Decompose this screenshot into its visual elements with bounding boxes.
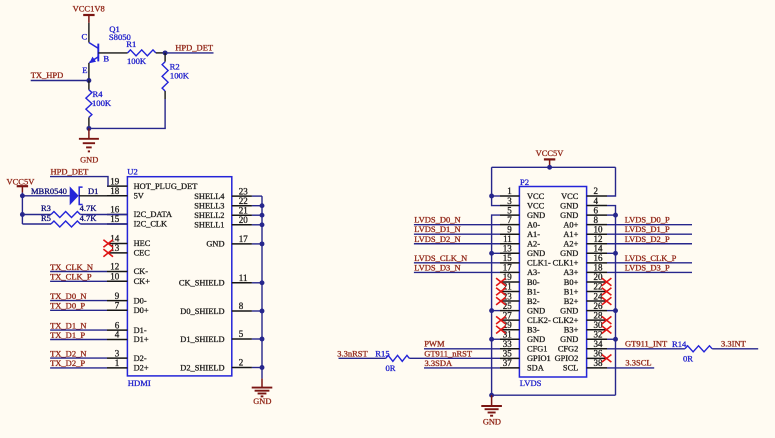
no-connect X pin 27 [496,316,506,324]
svg-text:20: 20 [594,272,604,282]
wire LVDS_CLK_N [414,262,500,264]
svg-text:U2: U2 [127,167,138,177]
no-connect X pin 19 [496,278,506,286]
svg-text:CK-: CK- [134,267,149,276]
svg-text:13: 13 [110,243,120,253]
svg-text:D1+: D1+ [134,335,149,344]
svg-text:11: 11 [503,234,512,244]
svg-text:23: 23 [239,186,249,196]
pin 5 GND [500,214,519,216]
svg-text:I2C_CLK: I2C_CLK [134,220,168,229]
wire LVDS_CLK_P [607,262,692,264]
svg-text:GND: GND [560,335,578,344]
no-connect X pin 30 [602,326,612,334]
svg-text:22: 22 [239,196,248,206]
pin 15 I2C_CLK [107,223,127,225]
svg-text:D1: D1 [88,186,98,196]
svg-text:29: 29 [503,320,513,330]
svg-text:A2-: A2- [527,240,540,249]
wire GT911_INT from pin 34 [607,348,685,350]
svg-text:8: 8 [239,301,244,311]
svg-text:D2_SHIELD: D2_SHIELD [180,363,224,372]
pin 2 VCC [587,195,607,197]
node shield bus pin 11 [260,280,265,285]
svg-text:36: 36 [594,349,604,359]
svg-text:5: 5 [239,329,244,339]
svg-text:15: 15 [503,253,513,263]
svg-text:D1-: D1- [134,326,147,335]
pin 14 GND [587,252,607,254]
wire LVDS_D1_P [607,233,692,235]
pin 27 CLK2- [500,319,519,321]
node shield bus pin 21 [260,213,265,218]
wire shield bus vertical [261,196,263,379]
svg-text:9: 9 [507,224,512,234]
wire LVDS_D0_N [414,224,500,226]
pin 19 HOT_PLUG_DET [107,185,127,187]
wire bottom GND rail [492,394,616,396]
no-connect X pin 23 [496,297,506,305]
pin 20 B0+ [587,281,607,283]
ground GND [88,128,90,138]
svg-text:3.3SCL: 3.3SCL [625,358,651,368]
no-connect X pin 29 [496,326,506,334]
resistor R2 100K [164,53,166,62]
wire TX_D2_N [50,357,107,359]
node ground junction [86,126,91,131]
svg-text:TX_D2_P: TX_D2_P [50,358,85,368]
svg-text:HOT_PLUG_DET: HOT_PLUG_DET [134,182,198,191]
pin 15 CLK1- [500,262,519,264]
svg-text:D1_SHIELD: D1_SHIELD [180,335,224,344]
svg-text:17: 17 [239,234,249,244]
node left GND bus pin 25 [492,310,500,312]
node HPD_DET junction [163,50,168,55]
pin 22 B1+ [587,291,607,293]
svg-text:16: 16 [594,253,604,263]
wire LVDS_D3_P [607,271,692,273]
pin 8 A0+ [587,224,607,226]
svg-text:33: 33 [503,339,513,349]
pin 23 B2- [500,300,519,302]
pin 4 GND [587,205,607,207]
node emitter junction [86,78,91,83]
svg-text:12: 12 [594,234,603,244]
pin 13 GND [500,252,519,254]
svg-text:SCL: SCL [563,364,578,373]
svg-text:CEC: CEC [134,249,151,258]
svg-text:100K: 100K [170,71,190,81]
svg-text:28: 28 [594,310,604,320]
svg-text:20: 20 [239,215,249,225]
svg-text:B3+: B3+ [564,326,579,335]
svg-text:CFG1: CFG1 [527,345,547,354]
node shield bus pin 2 [260,365,265,370]
svg-text:14: 14 [594,244,604,254]
svg-text:7: 7 [115,301,120,311]
svg-text:MBR0540: MBR0540 [31,186,67,196]
pin 18 5V [107,195,127,197]
svg-text:HDMI: HDMI [128,378,151,388]
svg-text:TX_CLK_N: TX_CLK_N [50,262,93,272]
svg-text:VCC1V8: VCC1V8 [73,4,105,14]
svg-text:LVDS_D3_P: LVDS_D3_P [625,262,670,272]
node VCC5V-diode junction [20,193,25,198]
svg-text:24: 24 [594,291,604,301]
wire shield stub pin 2 [252,367,262,369]
no-connect X pin 20 [602,278,612,286]
svg-text:C: C [82,31,88,41]
svg-text:LVDS_D2_N: LVDS_D2_N [414,234,460,244]
transistor Q1 S8050 [89,43,98,49]
svg-text:5: 5 [507,205,512,215]
pin 10 CK+ [107,280,127,282]
svg-text:32: 32 [594,329,603,339]
wire left GND bus [492,215,500,395]
wire R2 to ground rail [164,99,166,128]
svg-text:18: 18 [594,263,604,273]
svg-text:11: 11 [239,273,248,283]
svg-text:CLK1+: CLK1+ [553,259,579,268]
wire VCC top rail [492,166,616,168]
svg-text:CK+: CK+ [134,277,151,286]
svg-text:TX_D0_P: TX_D0_P [50,301,85,311]
pin 31 GND [500,338,519,340]
resistor R1 100K [128,50,156,56]
svg-text:GPIO1: GPIO1 [527,354,551,363]
svg-text:SHELL4: SHELL4 [194,192,225,201]
resistor R4 100K [88,81,90,90]
node shield bus pin 22 [260,203,265,208]
pin 34 CFG2 [587,348,607,350]
svg-text:LVDS_CLK_P: LVDS_CLK_P [625,253,677,263]
pin 17 GND [232,243,252,245]
pin 5 D1_SHIELD [232,338,252,340]
pin 16 CLK1+ [587,262,607,264]
svg-text:A1+: A1+ [563,230,578,239]
svg-text:A0+: A0+ [563,220,578,229]
node right GND bus pin 32 [607,338,616,340]
pin 19 B0- [500,281,519,283]
svg-text:I2C_DATA: I2C_DATA [134,210,172,219]
svg-text:16: 16 [110,205,120,215]
component body U2 [127,177,231,376]
pin 38 SCL [587,367,607,369]
wire TX_CLK_N [50,271,107,273]
svg-text:10: 10 [110,272,120,282]
resistor R3 4.7K [22,214,51,216]
svg-text:4.7K: 4.7K [80,213,98,223]
pin 16 I2C_DATA [107,214,127,216]
svg-text:LVDS_CLK_N: LVDS_CLK_N [414,253,467,263]
svg-text:2: 2 [594,186,599,196]
svg-text:38: 38 [594,358,604,368]
svg-text:22: 22 [594,282,603,292]
resistor R5 4.7K [22,223,51,225]
svg-text:12: 12 [110,262,119,272]
svg-text:B: B [103,53,109,63]
svg-text:VCC: VCC [561,192,579,201]
wire TX_D1_N [50,329,107,331]
svg-text:0R: 0R [683,353,693,363]
svg-text:GND: GND [560,211,578,220]
svg-text:4: 4 [594,196,599,206]
ground GND (HDMI shield) [261,379,263,388]
node right GND bus pin 6 [607,214,616,216]
svg-text:R1: R1 [126,39,136,49]
svg-text:2: 2 [239,358,244,368]
svg-text:R14: R14 [672,339,687,349]
wire HPD_DET to pin 19 [50,177,108,187]
svg-text:GPIO2: GPIO2 [555,354,579,363]
pin 11 A2- [500,243,519,245]
svg-text:13: 13 [503,244,513,254]
svg-text:TX_D2_N: TX_D2_N [50,348,86,358]
svg-text:TX_D0_N: TX_D0_N [50,291,86,301]
pin 1 D2+ [107,367,127,369]
svg-text:HEC: HEC [134,239,151,248]
svg-text:23: 23 [503,291,513,301]
no-connect X pin 13 [103,249,113,257]
ground GND (LVDS) [491,395,493,406]
no-connect X pin 36 [602,355,612,363]
wire 3.3SCL from pin 38 [607,367,654,369]
pin 25 GND [500,310,519,312]
svg-text:3.3SDA: 3.3SDA [425,358,453,368]
svg-text:D0+: D0+ [134,306,149,315]
svg-text:5V: 5V [134,191,144,200]
svg-text:17: 17 [503,263,513,273]
svg-text:TX_HPD: TX_HPD [31,70,64,80]
wire shield stub pin 5 [252,338,262,340]
svg-text:GND: GND [206,240,224,249]
svg-text:GND: GND [527,211,545,220]
wire shield stub pin 11 [252,282,262,284]
pin 26 GND [587,310,607,312]
node shield bus pin 20 [260,222,265,227]
pin 7 D0+ [107,309,127,311]
pin 17 A3- [500,271,519,273]
svg-text:A2+: A2+ [563,240,578,249]
wire shield stub pin 23 [252,195,262,197]
svg-text:1: 1 [507,186,512,196]
svg-text:7: 7 [507,215,512,225]
svg-text:VCC5V: VCC5V [536,148,565,158]
svg-text:4: 4 [115,330,120,340]
pin 2 D2_SHIELD [232,367,252,369]
svg-text:21: 21 [503,282,512,292]
svg-text:100K: 100K [127,56,147,66]
wire TX_D2_P [50,367,107,369]
wire 3.3nRST [339,357,386,359]
wire shield stub pin 17 [252,243,262,245]
node pin 1 junction [489,194,494,199]
wire shield stub pin 22 [252,205,262,207]
svg-text:1: 1 [115,358,120,368]
node left GND bus pin 13 [492,252,500,254]
pin 6 D1- [107,329,127,331]
svg-text:27: 27 [503,310,513,320]
svg-text:GND: GND [80,156,98,165]
pin 22 SHELL3 [232,205,252,207]
svg-text:8: 8 [594,215,599,225]
pin 14 HEC [107,243,127,245]
component body P2 [519,187,586,378]
svg-text:D2-: D2- [134,354,147,363]
svg-text:10: 10 [594,224,604,234]
wire LVDS_D2_N [414,243,500,245]
svg-text:LVDS_D0_P: LVDS_D0_P [625,215,670,225]
pin 35 GPIO1 [500,357,519,359]
pin 7 A0- [500,224,519,226]
svg-text:LVDS_D2_P: LVDS_D2_P [625,234,670,244]
svg-text:21: 21 [239,205,248,215]
svg-text:B1+: B1+ [564,287,579,296]
svg-text:R3: R3 [41,203,51,213]
svg-text:25: 25 [503,301,513,311]
svg-text:LVDS_D0_N: LVDS_D0_N [414,215,460,225]
wire shield stub pin 20 [252,224,262,226]
svg-text:3.3nRST: 3.3nRST [337,349,368,359]
svg-text:GND: GND [527,306,545,315]
svg-text:B3-: B3- [527,326,540,335]
pin 12 CK- [107,271,127,273]
svg-text:A3+: A3+ [563,268,578,277]
svg-text:SHELL3: SHELL3 [194,202,224,211]
svg-text:TX_CLK_P: TX_CLK_P [50,272,92,282]
wire GT911_nRST to pin 35 [409,357,500,359]
pin 21 SHELL2 [232,214,252,216]
node shield bus pin 17 [260,241,265,246]
svg-text:15: 15 [110,214,120,224]
svg-text:GND: GND [560,201,578,210]
svg-text:4.7K: 4.7K [80,203,98,213]
svg-text:CK_SHIELD: CK_SHIELD [179,279,225,288]
svg-text:LVDS: LVDS [520,378,542,388]
pin 4 D1+ [107,339,127,341]
svg-text:PWM: PWM [424,339,445,349]
wire LVDS_D3_N [414,271,500,273]
svg-text:R15: R15 [375,349,389,359]
svg-text:35: 35 [503,349,513,359]
wire base [98,52,127,54]
svg-text:GND: GND [527,335,545,344]
diode D1 MBR0540 (schottky) [70,186,79,205]
svg-text:31: 31 [503,329,512,339]
pin 36 GPIO2 [587,357,607,359]
pin 3 VCC [500,205,519,207]
pin 37 SDA [500,367,519,369]
svg-text:3: 3 [507,196,512,206]
pin 13 CEC [107,252,127,254]
wire collector to VCC1V8 [88,23,90,43]
svg-text:GND: GND [483,417,501,426]
wire LVDS_D2_P [607,243,692,245]
svg-text:P2: P2 [520,177,529,187]
svg-text:100K: 100K [92,98,112,108]
svg-text:18: 18 [110,186,120,196]
svg-text:30: 30 [594,320,604,330]
pin 11 CK_SHIELD [232,282,252,284]
svg-text:D0-: D0- [134,296,147,305]
wire LVDS_D0_P [607,224,692,226]
svg-text:0R: 0R [386,363,396,373]
svg-text:6: 6 [594,205,599,215]
node shield bus pin 5 [260,337,265,342]
pin 32 GND [587,338,607,340]
wire TX_D0_P [50,309,107,311]
wire TX_HPD [31,80,89,82]
svg-text:A3-: A3- [527,268,540,277]
wire VCC5V rail [21,193,23,224]
pin 1 VCC [500,195,519,197]
svg-text:B2+: B2+ [564,297,579,306]
svg-text:SHELL2: SHELL2 [194,211,224,220]
svg-text:R5: R5 [41,213,51,223]
no-connect X pin 28 [602,316,612,324]
wire right GND bus [607,206,616,396]
wire to diode D1 [22,195,69,197]
pin 3 D2- [107,357,127,359]
pin 33 CFG1 [500,348,519,350]
pin 28 CLK2+ [587,319,607,321]
node right GND bus pin 26 [607,310,616,312]
wire TX_CLK_P [50,280,107,282]
svg-text:9: 9 [115,291,120,301]
pin 20 SHELL1 [232,224,252,226]
svg-text:CLK1-: CLK1- [527,259,551,268]
pin 10 A1+ [587,233,607,235]
svg-text:19: 19 [503,272,513,282]
resistor R14 0R [685,346,712,352]
wire TX_D1_P [50,339,107,341]
svg-text:HPD_DET: HPD_DET [175,43,214,53]
svg-text:B1-: B1- [527,287,540,296]
wire shield stub pin 8 [252,310,262,312]
pin 8 D0_SHIELD [232,310,252,312]
svg-text:VCC: VCC [527,201,545,210]
svg-text:LVDS_D1_N: LVDS_D1_N [414,224,460,234]
svg-text:GT911_INT: GT911_INT [625,339,668,349]
wire TX_D0_N [50,300,107,302]
svg-text:VCC: VCC [527,192,545,201]
node left GND bus pin 31 [492,338,500,340]
svg-text:CLK2-: CLK2- [527,316,551,325]
svg-text:E: E [82,65,87,75]
svg-text:HPD_DET: HPD_DET [51,166,90,176]
wire PWM to pin 33 [424,348,500,350]
wire shield stub pin 21 [252,214,262,216]
no-connect X pin 14 [103,240,113,248]
pin 9 A1- [500,233,519,235]
svg-text:37: 37 [503,358,513,368]
resistor R15 0R [386,355,410,361]
node GND junction [489,393,494,398]
pin 24 B2+ [587,300,607,302]
svg-text:A1-: A1- [527,230,540,239]
no-connect X pin 24 [602,297,612,305]
pin 30 B3+ [587,329,607,331]
pin 18 A3+ [587,271,607,273]
pin 23 SHELL4 [232,195,252,197]
wire VCC right drop to pin 2 [607,167,616,196]
pin 6 GND [587,214,607,216]
no-connect X pin 21 [496,288,506,296]
svg-text:GND: GND [527,249,545,258]
svg-text:3: 3 [115,348,120,358]
svg-text:34: 34 [594,339,604,349]
no-connect X pin 22 [602,288,612,296]
